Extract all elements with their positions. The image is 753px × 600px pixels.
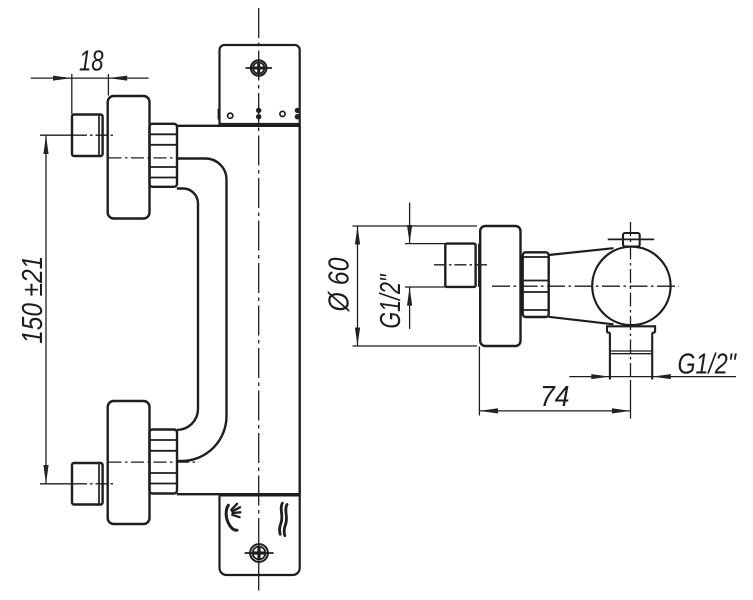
svg-text:Ø 60: Ø 60 xyxy=(324,258,356,313)
arrow 74 left xyxy=(479,408,498,413)
arrow 60 top xyxy=(355,226,360,245)
bottom connection nut xyxy=(150,430,178,494)
74 right extension xyxy=(630,380,632,419)
top plate screw xyxy=(246,60,273,76)
dim 150 line xyxy=(45,135,47,484)
bottom escutcheon xyxy=(108,401,150,524)
svg-text:74: 74 xyxy=(540,381,570,413)
dim 18 line xyxy=(31,77,149,79)
dim G12 right line xyxy=(569,376,736,378)
arrow 18 left xyxy=(53,76,72,81)
button line xyxy=(608,238,655,240)
dim 18 ext lines xyxy=(71,74,73,114)
square wall fitting xyxy=(445,244,475,287)
svg-text:G1/2": G1/2" xyxy=(375,273,407,328)
bottom valve axis xyxy=(109,461,200,463)
waves icon xyxy=(279,503,287,535)
dim 74 line xyxy=(479,410,630,412)
bottom wall axis xyxy=(40,483,75,485)
top hex inner face line xyxy=(98,115,100,157)
pipe outer edge xyxy=(177,159,227,462)
svg-text:18: 18 xyxy=(79,46,104,78)
handle circle xyxy=(592,247,670,325)
arrow 60 bottom xyxy=(355,328,360,347)
top escutcheon xyxy=(108,96,150,219)
dim 60 ext lines xyxy=(353,225,478,227)
plate scale markings xyxy=(219,108,300,120)
circle vertical centerline xyxy=(630,222,632,380)
left view vertical centerline xyxy=(258,8,260,594)
arrow G12L bottom xyxy=(407,287,412,306)
nut side ribs xyxy=(523,257,549,310)
dim 74 left ext line xyxy=(478,347,480,416)
right valve axis xyxy=(492,285,679,287)
arrows xyxy=(43,76,670,484)
bottom mounting plate xyxy=(220,495,300,575)
bottom hex inner face line xyxy=(98,463,100,505)
bottom nut ribs xyxy=(150,440,178,484)
square fitting axis xyxy=(434,264,489,266)
bottom hex wall fitting xyxy=(72,463,103,505)
escutcheon side view xyxy=(480,226,520,346)
arrow G12R left xyxy=(591,374,610,379)
arrow G12R right xyxy=(652,374,671,379)
square fitting far edge line xyxy=(478,244,480,287)
top connection nut xyxy=(150,124,178,187)
outlet flange xyxy=(607,326,655,332)
arrow 18 right xyxy=(108,76,127,81)
arrow 150 bottom xyxy=(43,465,48,484)
arrow 150 top xyxy=(43,135,48,154)
outlet thread groove xyxy=(610,351,652,354)
outlet cylinder xyxy=(610,333,652,380)
spray icon xyxy=(226,504,240,530)
svg-text:150 ±21: 150 ±21 xyxy=(17,256,49,344)
top nut ribs xyxy=(150,134,178,177)
button on top xyxy=(623,233,640,247)
body column xyxy=(177,126,300,494)
cone body xyxy=(549,248,614,324)
top hex wall fitting xyxy=(72,115,103,157)
arrow G12L top xyxy=(407,225,412,244)
top mounting plate xyxy=(220,45,300,124)
dimensions xyxy=(31,74,736,484)
pipe inner edge xyxy=(177,189,198,430)
top valve axis xyxy=(109,157,178,159)
nut side view xyxy=(523,252,549,317)
dim G12 left line xyxy=(409,203,411,244)
dim 60 line xyxy=(357,226,359,346)
dim G12 left ext lines xyxy=(405,243,445,245)
bottom plate screw xyxy=(245,544,274,562)
top wall axis xyxy=(40,134,75,136)
arrow 74 right xyxy=(612,408,631,413)
svg-text:G1/2": G1/2" xyxy=(678,348,738,380)
